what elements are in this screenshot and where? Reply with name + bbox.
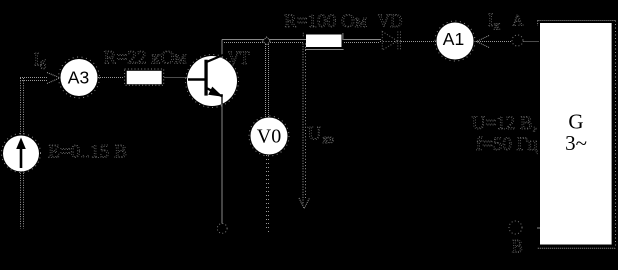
svg-text:В: В xyxy=(512,237,523,258)
svg-text:3~: 3~ xyxy=(565,131,587,155)
svg-text:A3: A3 xyxy=(68,68,89,88)
svg-text:U=12 В,: U=12 В, xyxy=(472,113,538,134)
svg-text:R=100 Ом: R=100 Ом xyxy=(284,11,367,32)
svg-text:A1: A1 xyxy=(443,29,464,49)
svg-text:f=50 Гц: f=50 Гц xyxy=(476,134,538,155)
svg-text:VD: VD xyxy=(378,11,403,32)
svg-text:А: А xyxy=(512,13,524,30)
svg-text:G: G xyxy=(568,110,583,134)
svg-text:VT: VT xyxy=(228,48,250,69)
svg-text:E=0..15 В: E=0..15 В xyxy=(48,142,127,163)
svg-text:R=22 кОм: R=22 кОм xyxy=(104,48,187,69)
svg-text:V0: V0 xyxy=(257,126,281,148)
